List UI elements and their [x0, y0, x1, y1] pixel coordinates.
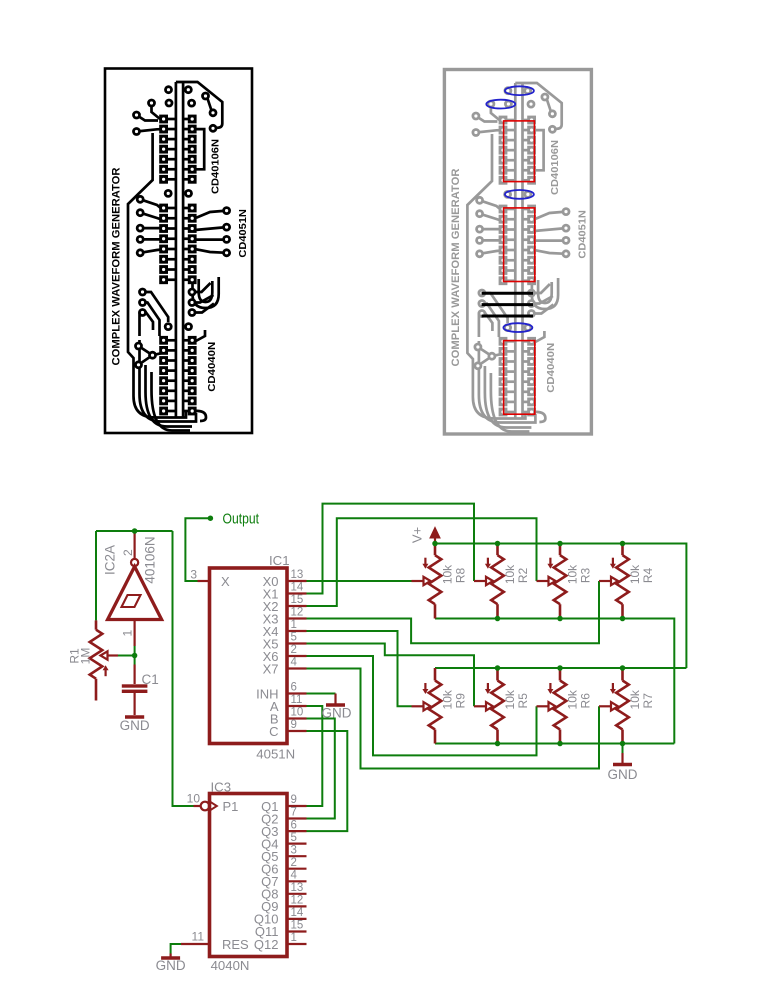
ground under C1: [125, 715, 144, 718]
wire: feedback to R1 top: [95, 531, 97, 620]
svg-text:1: 1: [291, 619, 297, 631]
svg-text:12: 12: [291, 895, 304, 907]
node Output wire to IC1 X: [185, 518, 210, 581]
junction: oscillator output node: [132, 528, 138, 534]
wire: R7 bottom to GND: [622, 744, 624, 754]
IC1 pin numbers: [190, 568, 304, 732]
trimmer R6 10k: [537, 668, 567, 744]
svg-text:7: 7: [291, 807, 297, 819]
op-amp IC1 4051N multiplexer: [198, 568, 307, 744]
svg-text:CD40106N: CD40106N: [550, 140, 561, 195]
svg-text:CD4051N: CD4051N: [238, 209, 249, 258]
trimmer R3 10k: [537, 544, 567, 619]
IC outline CD40106N (red silkscreen): [504, 121, 535, 182]
label R6 value 10k: [566, 689, 593, 709]
wire: X1 to R2 wiper: [307, 504, 475, 594]
svg-text:3: 3: [190, 568, 197, 582]
jumper ellipse J3: [505, 190, 534, 199]
label R7 value 10k: [628, 689, 655, 709]
trimmer R7 10k: [599, 668, 629, 744]
svg-text:R3: R3: [579, 568, 593, 584]
wire: bottom trimmer top rail: [435, 667, 686, 669]
svg-text:2: 2: [291, 644, 297, 656]
svg-text:R7: R7: [641, 693, 655, 709]
wire: inverter input to C1: [134, 646, 136, 665]
svg-text:Output: Output: [223, 511, 260, 528]
svg-text:GND: GND: [156, 958, 186, 973]
svg-text:10k: 10k: [503, 564, 517, 584]
wire jumpers (black): [482, 293, 533, 316]
svg-text:15: 15: [291, 920, 304, 932]
junctions: top row bottom rail: [495, 616, 501, 622]
svg-text:4: 4: [291, 870, 298, 882]
ground at IC3 RES: [161, 954, 180, 959]
wire: B to Q2: [307, 719, 335, 819]
wire: C to Q3: [307, 731, 348, 831]
wire: A to Q1: [307, 706, 323, 806]
label R3 value 10k: [566, 564, 593, 584]
wire: RES to GND: [171, 944, 181, 954]
label R4 value 10k: [628, 564, 655, 584]
svg-text:10k: 10k: [503, 689, 517, 709]
wire: X7 to R7 wiper: [307, 669, 600, 769]
svg-text:6: 6: [291, 819, 297, 831]
wire: R1 wiper to input node: [118, 655, 135, 657]
svg-text:10: 10: [291, 707, 304, 719]
svg-text:CD4051N: CD4051N: [577, 210, 588, 259]
svg-text:COMPLEX WAVEFORM GENERATOR: COMPLEX WAVEFORM GENERATOR: [450, 168, 462, 366]
wire: X2 to R3 wiper: [307, 518, 537, 606]
svg-text:4: 4: [291, 657, 298, 669]
trimmer R2 10k: [474, 544, 504, 619]
svg-text:1: 1: [121, 630, 135, 637]
svg-text:GND: GND: [322, 706, 352, 721]
svg-text:Q12: Q12: [254, 937, 279, 952]
svg-text:RES: RES: [222, 937, 249, 952]
wire: X0 to R8 wiper: [307, 580, 412, 582]
power V+: [430, 528, 439, 544]
svg-text:R4: R4: [641, 568, 655, 584]
PCB layout black (top view): [105, 69, 252, 434]
capacitor C1: [122, 665, 148, 716]
svg-text:2: 2: [121, 549, 135, 556]
svg-text:R2: R2: [516, 568, 530, 584]
svg-text:13: 13: [291, 569, 304, 581]
svg-text:10k: 10k: [441, 564, 455, 584]
IC outline CD4051N (red silkscreen): [504, 208, 535, 282]
IC1 pin names: [221, 574, 279, 739]
counter IC3 4040N: [181, 794, 307, 957]
trimmer R9 10k: [412, 668, 442, 744]
svg-text:2: 2: [291, 857, 297, 869]
wire: X3 to R4 wiper: [307, 581, 600, 643]
svg-text:IC3: IC3: [211, 780, 232, 795]
label R5 value 10k: [503, 689, 530, 709]
svg-text:1M: 1M: [79, 648, 93, 665]
trimmer R4 10k: [599, 544, 629, 619]
trimmer R8 10k: [412, 544, 442, 619]
svg-text:4051N: 4051N: [256, 747, 295, 762]
svg-text:12: 12: [291, 607, 304, 619]
junction: V+ rail: [432, 541, 438, 547]
svg-text:9: 9: [291, 794, 297, 806]
svg-text:R9: R9: [454, 693, 468, 709]
trimmer R5 10k: [474, 668, 504, 744]
svg-text:CD4040N: CD4040N: [207, 342, 218, 392]
wire: top trimmer bottom rail: [435, 619, 674, 744]
label R9 value 10k: [441, 689, 468, 709]
svg-text:R6: R6: [579, 693, 593, 709]
svg-text:6: 6: [291, 682, 297, 694]
svg-text:10: 10: [187, 792, 201, 806]
svg-text:5: 5: [291, 832, 297, 844]
jumper ellipse J1: [505, 86, 534, 95]
svg-text:10k: 10k: [441, 689, 455, 709]
svg-text:11: 11: [291, 694, 303, 706]
svg-text:1: 1: [291, 932, 297, 944]
svg-text:13: 13: [291, 882, 304, 894]
svg-text:14: 14: [291, 907, 304, 919]
wire: V+ rail (top trimmer row): [435, 544, 686, 669]
svg-text:C: C: [269, 724, 278, 739]
svg-text:X: X: [221, 574, 230, 589]
svg-text:15: 15: [291, 594, 304, 606]
svg-text:9: 9: [291, 719, 297, 731]
ground at trimmer array: [613, 753, 632, 765]
svg-text:R5: R5: [516, 693, 530, 709]
IC3 pin numbers: [187, 792, 304, 945]
svg-text:GND: GND: [120, 718, 150, 733]
wire: X4 to R9 wiper: [307, 631, 412, 706]
IC3 pin names: [222, 799, 279, 952]
wire: X6 to R6 wiper: [307, 656, 537, 755]
label R8 value 10k: [441, 564, 468, 584]
jumper ellipse J4: [503, 323, 532, 332]
label R2 value 10k: [503, 564, 530, 584]
wire: oscillator output rail: [96, 530, 173, 532]
svg-text:11: 11: [192, 930, 205, 944]
svg-text:GND: GND: [608, 767, 638, 782]
svg-text:COMPLEX WAVEFORM GENERATOR: COMPLEX WAVEFORM GENERATOR: [111, 167, 123, 365]
wire: clock to IC3 P1: [173, 531, 194, 806]
junction: input node: [132, 653, 138, 659]
inverter IC2A 40106N schmitt trigger: [108, 531, 162, 646]
PCB layout with components (gray): [444, 70, 591, 435]
svg-text:V+: V+: [410, 527, 425, 543]
svg-text:4040N: 4040N: [211, 958, 250, 973]
node Output: [208, 515, 214, 521]
junctions: bottom row top rail: [495, 665, 501, 671]
svg-text:10k: 10k: [628, 689, 642, 709]
svg-text:IC2A: IC2A: [103, 545, 118, 575]
wire: bottom trimmer bottom rail to GND: [435, 743, 674, 745]
svg-text:10k: 10k: [628, 564, 642, 584]
trimmer R1 1M: [90, 620, 118, 700]
svg-text:R8: R8: [454, 568, 468, 584]
junctions: bottom row bottom rail: [495, 741, 501, 747]
svg-text:P1: P1: [223, 799, 239, 814]
wire: X5 to R5 wiper: [307, 644, 475, 707]
svg-text:40106N: 40106N: [143, 536, 158, 583]
ground at INH: [326, 694, 345, 706]
IC outline CD4040N (red silkscreen): [504, 341, 535, 415]
svg-text:X7: X7: [263, 661, 279, 676]
svg-text:CD40106N: CD40106N: [211, 139, 222, 194]
svg-text:10k: 10k: [566, 564, 580, 584]
svg-text:14: 14: [291, 582, 304, 594]
jumper ellipse J2: [486, 100, 515, 109]
svg-text:5: 5: [291, 632, 297, 644]
svg-text:3: 3: [291, 844, 297, 856]
svg-text:10k: 10k: [566, 689, 580, 709]
svg-text:C1: C1: [142, 672, 159, 687]
wire: INH to ground: [307, 693, 336, 695]
svg-text:IC1: IC1: [269, 553, 290, 568]
svg-text:CD4040N: CD4040N: [546, 343, 557, 393]
